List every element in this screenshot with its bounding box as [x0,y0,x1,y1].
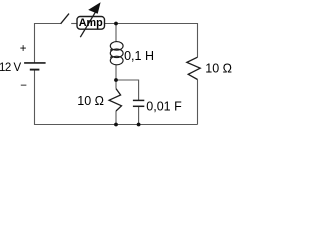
svg-text:0,1 H: 0,1 H [124,49,154,63]
svg-text:+: + [20,43,27,55]
svg-text:−: − [20,80,27,92]
svg-text:Amp: Amp [79,17,103,29]
svg-text:12 V: 12 V [0,62,21,74]
svg-text:0,01 F: 0,01 F [146,99,182,113]
svg-text:10 Ω: 10 Ω [205,61,232,75]
svg-text:10 Ω: 10 Ω [77,94,104,108]
